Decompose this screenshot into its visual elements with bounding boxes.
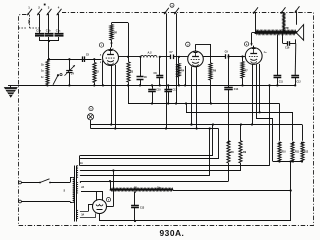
node antenna terminal 1 bbox=[27, 6, 32, 16]
capacitor C5 bbox=[83, 54, 90, 62]
resistor R9 bbox=[239, 123, 247, 170]
wire C7 to B2 grid bbox=[173, 56, 188, 58]
wire B2 heater legs bbox=[190, 67, 197, 130]
wire mains bottom bbox=[21, 202, 72, 203]
wire taps rect filament bbox=[80, 213, 96, 217]
svg-text:C14: C14 bbox=[234, 88, 239, 91]
resistor 100 bbox=[27, 15, 40, 28]
resistor R6 bbox=[209, 63, 217, 105]
tube B3 bbox=[245, 46, 267, 65]
node B5 circled label bbox=[106, 198, 110, 202]
wire tap heater B bbox=[80, 204, 93, 212]
ground bbox=[5, 85, 19, 97]
svg-text:C1b: C1b bbox=[46, 30, 51, 33]
wire main ground bus bbox=[19, 85, 296, 87]
node antenna terminal 2 bbox=[37, 6, 42, 16]
wire bus C heaters bbox=[81, 129, 219, 160]
wire B1 heater legs bbox=[110, 65, 116, 130]
node B3 circled label bbox=[244, 42, 248, 46]
svg-text:R12: R12 bbox=[304, 152, 309, 154]
svg-text:TR: TR bbox=[286, 28, 289, 30]
svg-text:R10: R10 bbox=[282, 152, 287, 154]
svg-text:C11: C11 bbox=[279, 82, 284, 84]
node gram terminal 1 bbox=[164, 8, 169, 14]
node speaker terminal B bbox=[281, 7, 286, 13]
wire lamp to heater buses bbox=[90, 120, 92, 129]
wire grid line bbox=[49, 58, 101, 60]
resistor R12 bbox=[301, 142, 309, 163]
label 930A bbox=[160, 228, 185, 238]
wire bottom return bus bbox=[100, 220, 291, 222]
wire mains top bbox=[50, 177, 73, 182]
wire terminal3 drop bbox=[48, 14, 50, 33]
wire antenna cap bus bbox=[40, 37, 60, 60]
wire B3 heater legs bbox=[251, 64, 260, 126]
node B2 circled label bbox=[186, 42, 190, 46]
inductor A2 bbox=[139, 51, 157, 58]
svg-text:C16: C16 bbox=[285, 46, 290, 49]
svg-text:1A: 1A bbox=[80, 162, 83, 165]
wire terminal4 drop bbox=[58, 14, 60, 33]
wire coil out node bbox=[159, 56, 170, 58]
svg-text:C1a: C1a bbox=[36, 30, 41, 33]
svg-text:C12: C12 bbox=[296, 82, 301, 84]
resistor R8 bbox=[227, 141, 234, 181]
wire C9 to B3 grid bbox=[228, 55, 245, 57]
wire bus tube3 leg3 bbox=[185, 102, 293, 140]
node gram circled label bbox=[170, 3, 174, 7]
wire bus return HT bbox=[81, 84, 271, 165]
capacitor C10 bbox=[148, 84, 161, 103]
svg-text:2A: 2A bbox=[81, 186, 84, 189]
wire rect HT output bbox=[107, 171, 114, 207]
tube B5 rectifier bbox=[93, 200, 107, 214]
capacitor C13a bbox=[164, 84, 177, 103]
capacitor C16 bbox=[283, 34, 296, 50]
wire tap heater A bbox=[80, 182, 81, 184]
svg-text:C13: C13 bbox=[140, 207, 145, 209]
svg-text:930A.: 930A. bbox=[160, 228, 185, 238]
wire bus 213 bbox=[81, 123, 214, 155]
resistor R11 bbox=[291, 142, 300, 163]
capacitor C11 bbox=[274, 35, 284, 87]
wire bus 170 bbox=[81, 169, 241, 171]
wire bus 209 drop bbox=[81, 127, 211, 175]
node lamp circled label bbox=[89, 107, 93, 111]
capacitor C1c bbox=[55, 30, 64, 36]
wire R1 top to anode column bbox=[112, 23, 129, 57]
svg-text:100: 100 bbox=[27, 20, 31, 25]
svg-text:DR: DR bbox=[114, 33, 118, 35]
svg-text:C10: C10 bbox=[156, 90, 161, 92]
inductor smoothing choke bbox=[110, 187, 173, 190]
wire anode to coil bbox=[128, 56, 141, 58]
capacitor C7 bbox=[170, 51, 174, 59]
node mains terminal 1 bbox=[19, 181, 22, 184]
node speaker terminal A bbox=[253, 7, 258, 13]
node speaker terminal C bbox=[295, 6, 300, 12]
wire bus tube3 leg2 bbox=[256, 119, 273, 162]
resistor R3 bbox=[127, 57, 134, 87]
inductor T1 primary bbox=[64, 177, 75, 202]
capacitor C4 variable bbox=[65, 59, 75, 86]
wire B2 cathode leg bbox=[184, 66, 186, 87]
wire B3 anode riser bbox=[250, 33, 252, 46]
svg-text:R11: R11 bbox=[295, 152, 300, 154]
switch mains bbox=[21, 179, 50, 184]
resistor R4 bbox=[177, 57, 185, 87]
wire B1 topcap riser bbox=[110, 41, 112, 47]
wire gram drop 2 bbox=[175, 14, 177, 105]
svg-text:A.2: A.2 bbox=[148, 51, 153, 55]
resistor R2 bbox=[93, 59, 100, 86]
wire taps HT winding bbox=[80, 156, 82, 182]
capacitor C6 bbox=[137, 57, 148, 87]
wire B1 anode bbox=[119, 56, 130, 58]
inductor T1 secondary heater bbox=[76, 182, 84, 193]
svg-text:3A: 3A bbox=[81, 213, 84, 216]
speaker bbox=[296, 12, 303, 41]
tube B1 bbox=[100, 48, 119, 66]
wire divider bottom tie bbox=[273, 160, 302, 221]
svg-text:C13: C13 bbox=[172, 90, 177, 92]
switch wave-range bbox=[53, 74, 62, 85]
inductor S1 tuning coil bbox=[41, 59, 49, 84]
wire B2 topcap bbox=[196, 44, 212, 63]
resistor R7 bbox=[241, 57, 248, 87]
inductor T1 secondary rect bbox=[76, 210, 84, 218]
inductor T1 secondary HT bbox=[76, 162, 83, 177]
wire B2 anode bbox=[203, 56, 225, 58]
wire bus 181 bbox=[81, 180, 229, 191]
capacitor C13 bbox=[131, 191, 145, 221]
node B1 circled label bbox=[99, 43, 103, 47]
capacitor C14 gridleak bbox=[224, 55, 239, 140]
wire gram drop 1 bbox=[165, 14, 167, 130]
node antenna terminal 3 bbox=[44, 4, 52, 16]
lamp dial bbox=[87, 114, 93, 120]
node antenna terminal 4 bbox=[57, 6, 62, 16]
node mains terminal 2 bbox=[19, 200, 22, 203]
capacitor C9 bbox=[225, 50, 229, 58]
wire coil bottom bbox=[46, 84, 48, 86]
wire terminal2 drop bbox=[39, 14, 41, 33]
wire dashed earth option bbox=[19, 27, 28, 29]
node gram terminal 2 bbox=[174, 8, 179, 14]
capacitor C1a bbox=[35, 30, 44, 36]
wire bus B heaters bbox=[91, 123, 303, 140]
capacitor C12 bbox=[291, 44, 301, 87]
wire B1 cathode leg bbox=[102, 61, 104, 87]
resistor R10 bbox=[278, 142, 287, 163]
wire terminalA drop bbox=[254, 13, 256, 35]
transformer T1 core bbox=[75, 166, 77, 222]
capacitor C8 bbox=[154, 57, 164, 87]
wire rect anode bracket bbox=[81, 192, 103, 201]
wire choke to divider bbox=[173, 190, 291, 192]
capacitor C1b bbox=[45, 30, 54, 36]
resistor R1 bbox=[110, 25, 117, 42]
tube B2 bbox=[188, 49, 204, 67]
wire bus A bbox=[128, 85, 280, 140]
svg-text:C1c: C1c bbox=[56, 30, 61, 33]
inductor TR output choke bbox=[252, 28, 297, 34]
inductor output transformer primary bbox=[283, 13, 285, 33]
wire rect cathode bbox=[99, 214, 101, 222]
